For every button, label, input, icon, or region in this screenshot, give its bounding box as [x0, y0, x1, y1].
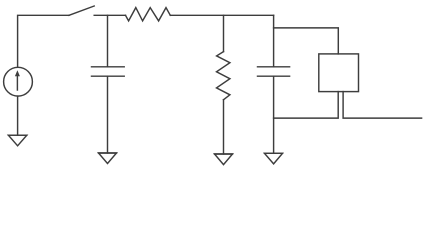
wire corner down to C2	[273, 15, 275, 67]
wire source bottom to ground	[17, 96, 19, 135]
resistor R2	[217, 52, 230, 100]
wire R2 bottom to ground	[223, 100, 225, 154]
wire C1 bottom to ground	[107, 76, 109, 153]
wire box bottom-right pin to right edge	[343, 92, 422, 119]
wire from source top to switch	[18, 15, 69, 67]
capacitor C1	[92, 67, 125, 76]
capacitor C2	[258, 67, 290, 76]
ground G4	[265, 153, 283, 164]
wire box bottom-left pin to ground rail	[274, 92, 339, 119]
switch S1	[69, 6, 94, 15]
ground G1	[8, 135, 26, 146]
wire switch right contact to node 1	[94, 14, 125, 16]
node 2 wire down to R2	[223, 15, 225, 51]
ground G3	[215, 154, 233, 165]
wire C2 bottom to ground	[273, 76, 275, 153]
wire R1 to node 2 to top-right corner	[170, 14, 273, 16]
resistor R1	[126, 8, 171, 21]
wire branch to box top	[274, 28, 339, 54]
component box U1	[319, 54, 359, 92]
current source I1	[4, 67, 33, 96]
ground G2	[99, 153, 117, 164]
node 1 junction (top of C1)	[107, 15, 109, 67]
